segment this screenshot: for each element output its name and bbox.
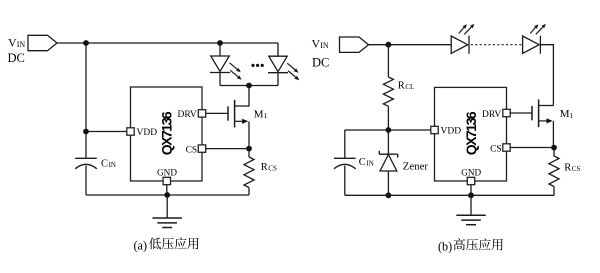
svg-text:DRV: DRV	[482, 110, 501, 120]
svg-text:QX7136: QX7136	[158, 111, 174, 155]
svg-text:CL: CL	[405, 83, 414, 91]
svg-text:DRV: DRV	[178, 110, 197, 120]
svg-text:IN: IN	[109, 161, 116, 169]
svg-text:CS: CS	[186, 145, 198, 155]
svg-text:V: V	[312, 37, 321, 51]
svg-text:DC: DC	[8, 51, 25, 65]
svg-text:VDD: VDD	[137, 128, 158, 138]
svg-text:VDD: VDD	[441, 127, 462, 137]
svg-text:QX7136: QX7136	[463, 111, 479, 155]
svg-text:IN: IN	[366, 160, 373, 168]
svg-text:1: 1	[264, 111, 268, 120]
svg-text:(b): (b)	[438, 239, 452, 253]
svg-text:R: R	[261, 162, 268, 173]
svg-text:IN: IN	[17, 40, 26, 49]
svg-text:V: V	[8, 36, 17, 50]
svg-text:DC: DC	[312, 55, 329, 69]
svg-text:CS: CS	[572, 165, 581, 173]
svg-text:M: M	[560, 108, 570, 120]
svg-text:CS: CS	[268, 165, 277, 173]
svg-text:R: R	[564, 162, 571, 173]
svg-text:IN: IN	[320, 41, 329, 50]
svg-text:C: C	[101, 158, 108, 169]
svg-text:GND: GND	[461, 168, 481, 178]
svg-text:1: 1	[570, 111, 574, 120]
svg-text:Zener: Zener	[403, 160, 429, 172]
svg-text:R: R	[398, 81, 405, 92]
svg-text:C: C	[359, 157, 366, 168]
svg-text:(a): (a)	[134, 238, 148, 252]
svg-text:CS: CS	[490, 144, 502, 154]
svg-text:M: M	[254, 109, 264, 121]
svg-text:GND: GND	[157, 168, 177, 178]
